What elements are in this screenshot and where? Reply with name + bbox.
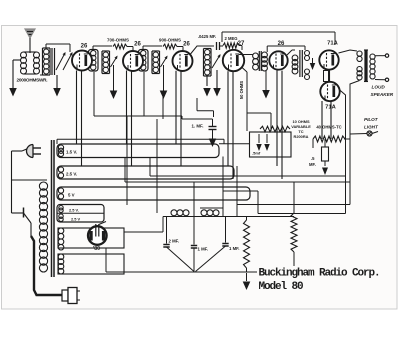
svg-text:LOUD: LOUD (372, 85, 386, 90)
svg-text:71A: 71A (327, 41, 338, 47)
svg-text:50 OHMS: 50 OHMS (239, 81, 244, 100)
svg-text:1 MF.: 1 MF. (198, 247, 209, 252)
svg-text:2 MF.: 2 MF. (169, 238, 180, 243)
svg-text:5 V: 5 V (68, 192, 75, 197)
svg-text:2.5 V.: 2.5 V. (69, 208, 79, 213)
svg-text:.5mf: .5mf (252, 151, 261, 156)
svg-text:1. MF.: 1. MF. (192, 124, 204, 129)
svg-text:27: 27 (238, 41, 245, 47)
svg-text:2000OHMSWR.: 2000OHMSWR. (17, 78, 48, 83)
svg-text:R200RA: R200RA (294, 134, 309, 139)
svg-text:1 MF.: 1 MF. (229, 246, 240, 251)
svg-text:26: 26 (81, 44, 88, 50)
svg-text:'80: '80 (93, 246, 100, 252)
svg-text:Buckingham Radio Corp.: Buckingham Radio Corp. (259, 268, 380, 280)
svg-text:Model 80: Model 80 (259, 281, 304, 293)
svg-text:700-OHMS: 700-OHMS (107, 38, 129, 43)
svg-text:2.5 V.: 2.5 V. (66, 171, 77, 176)
svg-text:26: 26 (183, 42, 190, 48)
svg-text:LIGHT: LIGHT (364, 125, 379, 130)
svg-text:.0425 MF.: .0425 MF. (198, 34, 216, 39)
svg-text:26: 26 (134, 42, 141, 48)
svg-text:900-OHMS: 900-OHMS (159, 38, 181, 43)
svg-text:PILOT: PILOT (364, 117, 379, 122)
svg-text:MF.: MF. (309, 162, 316, 167)
svg-text:SPEAKER: SPEAKER (371, 92, 394, 97)
svg-text:2 MEG: 2 MEG (224, 36, 237, 41)
svg-text:1.5 V.: 1.5 V. (66, 149, 77, 154)
svg-text:40 OHMS-TC: 40 OHMS-TC (316, 125, 341, 130)
svg-text:2.5 V: 2.5 V (71, 217, 80, 222)
